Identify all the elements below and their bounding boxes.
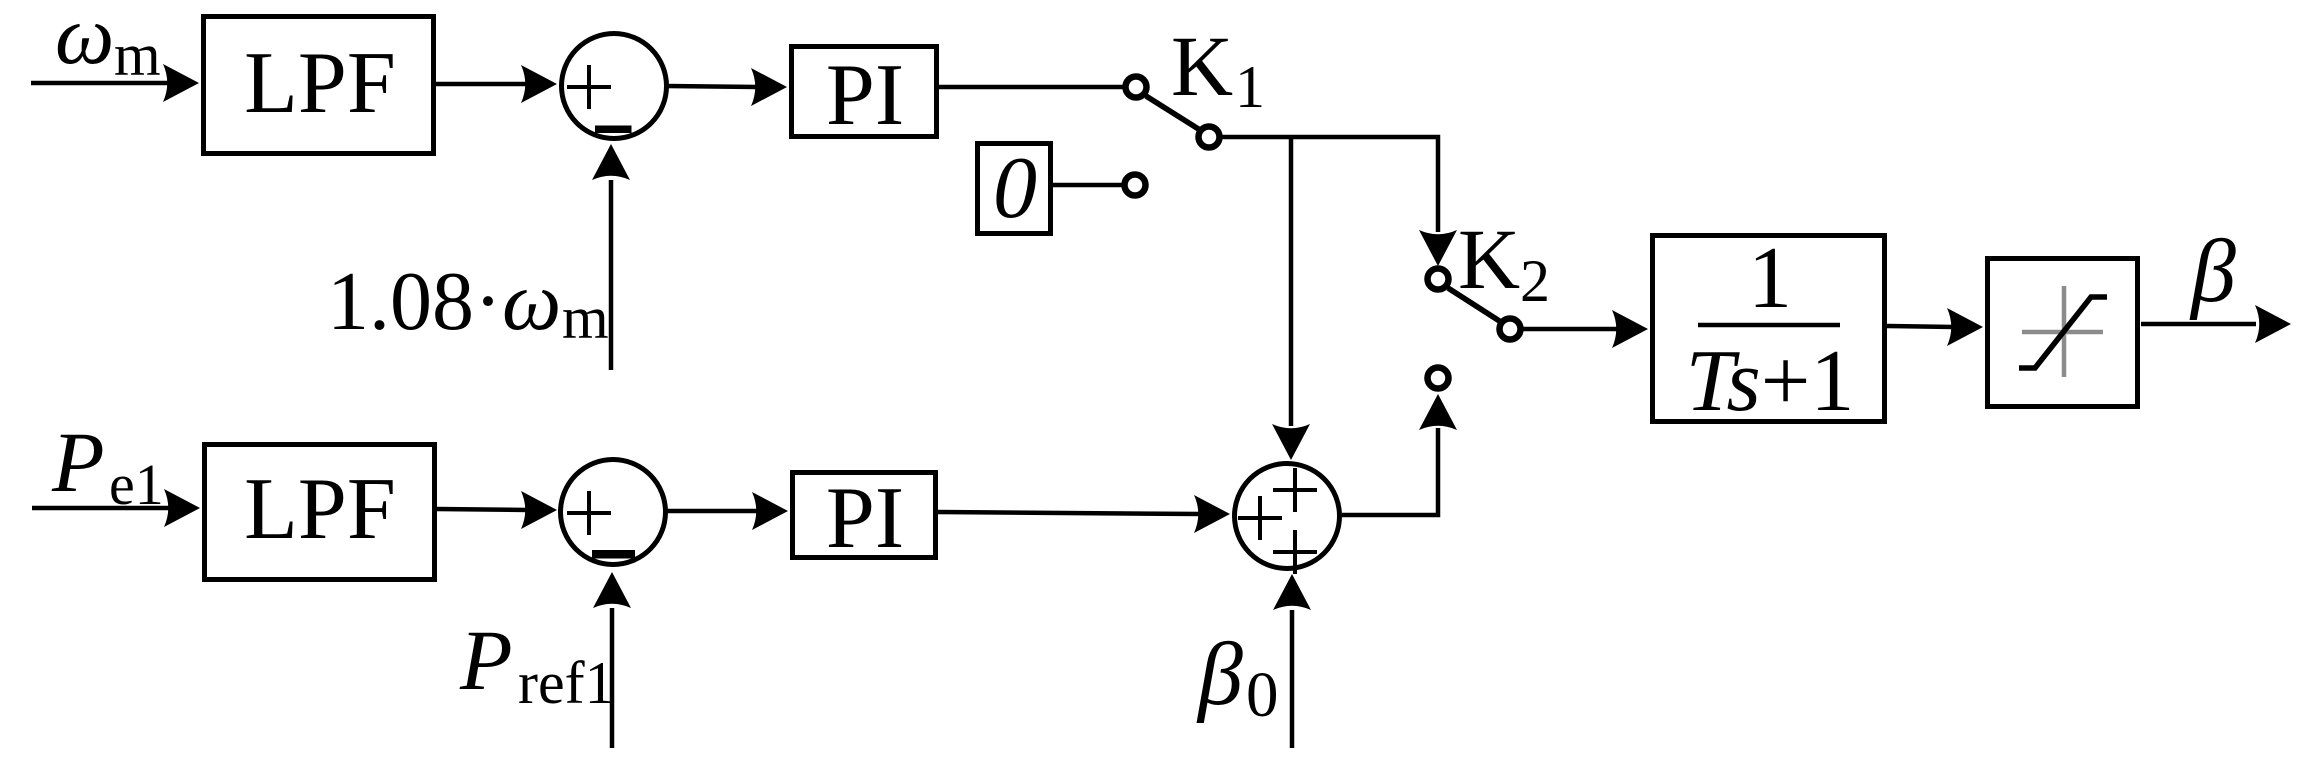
svg-text:LPF: LPF <box>244 35 396 132</box>
svg-text:P: P <box>51 414 105 510</box>
svg-text:PI: PI <box>826 47 904 144</box>
svg-text:1.08·ω: 1.08·ω <box>327 255 561 348</box>
svg-text:m: m <box>114 22 161 88</box>
svg-text:K: K <box>1171 18 1233 114</box>
svg-text:K: K <box>1458 211 1520 307</box>
svg-text:ref1: ref1 <box>518 650 615 716</box>
svg-text:P: P <box>459 612 513 708</box>
svg-text:β: β <box>2189 222 2236 321</box>
svg-text:PI: PI <box>826 470 904 567</box>
svg-text:1: 1 <box>1235 54 1265 120</box>
svg-text:ω: ω <box>55 0 114 82</box>
svg-text:m: m <box>562 285 609 351</box>
svg-text:2: 2 <box>1520 248 1550 314</box>
svg-text:Ts+1: Ts+1 <box>1686 333 1855 430</box>
svg-text:1: 1 <box>1748 230 1792 327</box>
svg-text:β: β <box>1196 625 1243 724</box>
svg-text:LPF: LPF <box>244 461 396 558</box>
svg-text:0: 0 <box>1246 659 1279 731</box>
svg-text:0: 0 <box>993 140 1037 237</box>
svg-text:e1: e1 <box>109 452 164 517</box>
